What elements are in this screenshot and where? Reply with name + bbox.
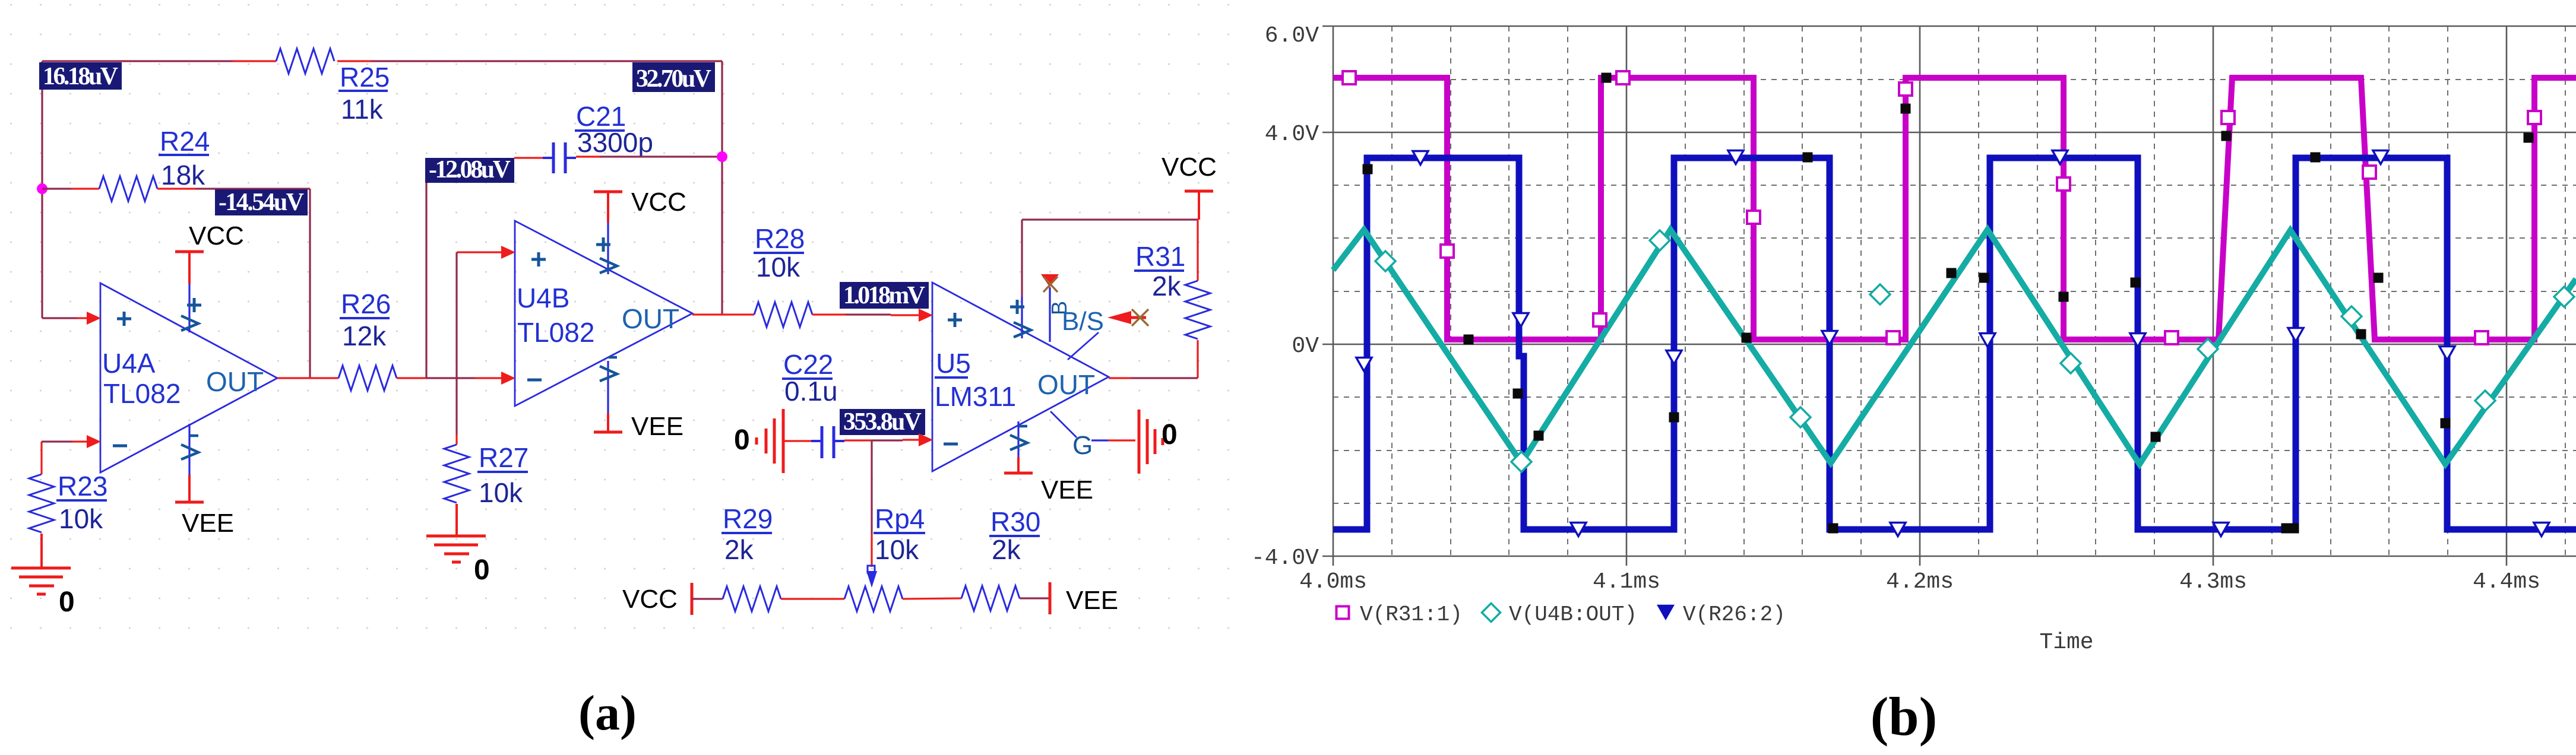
op-amp U4A + input arrow bbox=[87, 312, 101, 325]
wire from R23 top to U4A - input bbox=[40, 442, 42, 474]
trace V(R31:1) magenta square wave bbox=[1333, 78, 2576, 340]
wire U4B + input from R27 node bbox=[457, 251, 502, 253]
svg-text:R30: R30 bbox=[990, 506, 1040, 537]
wire R27 node vertical (U4B + to R27) bbox=[455, 252, 457, 434]
svg-text:11k: 11k bbox=[341, 94, 384, 125]
op-amp U4B triangle bbox=[515, 221, 692, 406]
svg-text:6.0V: 6.0V bbox=[1265, 23, 1319, 49]
voltage label 1.018mV bbox=[840, 282, 929, 309]
wire R30 to VEE bbox=[1020, 597, 1050, 599]
trace V(R26:2) blue square wave bbox=[1333, 158, 2576, 529]
svg-text:VEE: VEE bbox=[631, 412, 683, 441]
op-amp U4A + glyph bbox=[117, 318, 131, 321]
svg-text:OUT: OUT bbox=[622, 303, 679, 334]
ground 0 below R27 bbox=[426, 535, 486, 538]
svg-text:R25: R25 bbox=[340, 62, 390, 93]
voltage label 32.70uV bbox=[632, 62, 715, 92]
voltage label -12.08uV bbox=[425, 158, 514, 183]
svg-text:4.0V: 4.0V bbox=[1265, 122, 1319, 147]
wire VCC to R29 bbox=[692, 598, 723, 599]
op-amp U4B V- pin bbox=[607, 361, 609, 413]
op-amp U4B - glyph bbox=[527, 379, 542, 382]
svg-text:4.0ms: 4.0ms bbox=[1299, 569, 1367, 595]
svg-text:10k: 10k bbox=[756, 252, 800, 283]
ground 0 below R23 bbox=[11, 567, 71, 570]
power VEE at U4B bbox=[607, 413, 609, 432]
svg-text:(a): (a) bbox=[578, 686, 637, 741]
op-amp U4B + input arrow bbox=[501, 246, 515, 259]
wire U4B output to R28 bbox=[692, 313, 754, 315]
svg-text:4.1ms: 4.1ms bbox=[1593, 569, 1660, 595]
svg-text:R27: R27 bbox=[479, 442, 529, 473]
svg-text:VCC: VCC bbox=[631, 188, 686, 217]
op-amp U4A V- pin bbox=[188, 424, 190, 475]
voltage label -14.54uV bbox=[215, 189, 308, 215]
power VEE at U5 bbox=[1017, 457, 1020, 473]
svg-text:TL082: TL082 bbox=[103, 378, 181, 409]
wire C22 to U5 - input bbox=[844, 439, 872, 441]
plot solid gridlines and axes bbox=[1333, 26, 2576, 27]
resistor R26 bbox=[338, 366, 397, 391]
wire Rp4 to R30 bbox=[903, 598, 961, 599]
svg-text:R24: R24 bbox=[160, 126, 210, 157]
op-amp U4B - input arrow bbox=[501, 372, 515, 385]
resistor R24 bbox=[99, 176, 157, 201]
resistor R29 bbox=[723, 586, 781, 611]
svg-text:R23: R23 bbox=[58, 471, 107, 502]
op-amp U4A - input arrow bbox=[87, 435, 101, 448]
svg-text:TL082: TL082 bbox=[517, 317, 594, 348]
svg-text:V(R26:2): V(R26:2) bbox=[1683, 602, 1786, 627]
wire R31 bottom to U5 OUT bbox=[1197, 340, 1198, 378]
svg-text:1.018mV: 1.018mV bbox=[843, 282, 925, 309]
svg-text:3300p: 3300p bbox=[577, 127, 653, 158]
plot axis ticks bbox=[1322, 26, 1333, 27]
op-amp U4A V+ pin bbox=[188, 284, 190, 332]
ground 0 at C22 (rotated) bbox=[782, 409, 785, 473]
power VEE at U4A bbox=[188, 475, 191, 502]
svg-text:0: 0 bbox=[734, 424, 750, 456]
svg-text:-14.54uV: -14.54uV bbox=[219, 189, 304, 216]
wire U5 top net (V+ to VCC/R31) bbox=[1022, 218, 1198, 220]
op-amp U5 triangle bbox=[932, 283, 1109, 471]
capacitor C21 bbox=[552, 142, 555, 173]
svg-text:U4B: U4B bbox=[517, 283, 569, 313]
svg-text:0: 0 bbox=[474, 554, 490, 586]
wire from left node to R24 bbox=[42, 188, 71, 189]
wire left vertical from 16.18uV node down to U4A + input bbox=[41, 61, 43, 318]
op-amp U4A triangle bbox=[100, 283, 277, 472]
voltage label 353.8uV bbox=[840, 409, 925, 435]
svg-text:2k: 2k bbox=[724, 534, 754, 565]
wire R28 to U5 + input bbox=[812, 313, 846, 315]
svg-text:U4A: U4A bbox=[102, 348, 156, 379]
svg-text:OUT: OUT bbox=[206, 366, 264, 397]
op-amp U5 G pin bbox=[1050, 411, 1077, 437]
svg-text:10k: 10k bbox=[875, 534, 919, 565]
svg-text:0.1u: 0.1u bbox=[784, 376, 838, 407]
svg-text:VCC: VCC bbox=[189, 221, 244, 250]
svg-text:VEE: VEE bbox=[1066, 586, 1118, 615]
svg-text:4.2ms: 4.2ms bbox=[1886, 569, 1954, 595]
wire R29 to Rp4 bbox=[781, 598, 844, 599]
wire -12.08uV node vertical bbox=[425, 159, 427, 378]
svg-text:Rp4: Rp4 bbox=[875, 503, 925, 534]
svg-text:U5: U5 bbox=[936, 348, 971, 379]
power VEE terminal at R30 bbox=[1049, 582, 1052, 614]
op-amp U5 V- pin bbox=[1017, 421, 1019, 457]
wire Rp4 wiper vertical bbox=[871, 440, 872, 534]
wire U4A output to R26 bbox=[277, 377, 338, 379]
svg-text:(b): (b) bbox=[1871, 686, 1937, 747]
svg-text:18k: 18k bbox=[161, 160, 205, 191]
voltage label 16.18uV bbox=[39, 62, 122, 90]
svg-text:R31: R31 bbox=[1135, 241, 1185, 272]
wire R23 to ground bbox=[40, 534, 43, 568]
node junction dot at C21/32.70uV node bbox=[717, 151, 727, 162]
svg-text:4.4ms: 4.4ms bbox=[2473, 569, 2540, 595]
svg-text:V(R31:1): V(R31:1) bbox=[1360, 602, 1463, 627]
ground 0 at U5 G pin (rotated) bbox=[1138, 410, 1141, 474]
svg-text:V(U4B:OUT): V(U4B:OUT) bbox=[1509, 602, 1637, 627]
svg-text:VCC: VCC bbox=[622, 585, 678, 614]
op-amp U5 + input arrow bbox=[919, 309, 933, 322]
svg-text:-4.0V: -4.0V bbox=[1251, 545, 1319, 571]
op-amp U5 - input arrow bbox=[919, 433, 933, 446]
markers blue triangles on V(R26:2) bbox=[1413, 151, 1428, 165]
wire right vertical from 32.70uV corner down to U4B output node bbox=[721, 61, 723, 315]
svg-text:OUT: OUT bbox=[1037, 369, 1095, 400]
svg-text:R29: R29 bbox=[723, 503, 773, 534]
node junction dot at R24/R25 left node bbox=[37, 183, 48, 194]
svg-text:2k: 2k bbox=[992, 534, 1021, 565]
op-amp U5 B pin bbox=[1049, 287, 1050, 342]
svg-text:0V: 0V bbox=[1292, 334, 1319, 359]
resistor R30 bbox=[961, 586, 1020, 611]
trace V(U4B:OUT) teal triangle wave bbox=[1333, 230, 2576, 464]
power VCC at U4B bbox=[607, 192, 609, 223]
resistor R25 bbox=[276, 49, 334, 74]
op-amp U4A - glyph bbox=[113, 445, 127, 448]
svg-text:10k: 10k bbox=[59, 503, 103, 534]
markers teal diamonds on V(U4B:OUT) bbox=[1375, 251, 1395, 271]
capacitor C22 bbox=[821, 426, 824, 458]
resistor R23 bbox=[29, 474, 54, 532]
wire ground to C22 bbox=[783, 440, 811, 442]
markers magenta squares on V(R31:1) bbox=[1343, 71, 1356, 84]
op-amp U4B + glyph bbox=[531, 258, 546, 261]
resistor R27 bbox=[444, 445, 469, 503]
wire R26 to U4B - input bbox=[397, 377, 426, 379]
op-amp U5 + glyph bbox=[948, 319, 962, 322]
no-connect pin arrow and X at U5 pin 6 bbox=[1107, 311, 1131, 324]
svg-text:353.8uV: 353.8uV bbox=[843, 408, 922, 436]
resistor R31 bbox=[1185, 281, 1210, 339]
svg-text:0: 0 bbox=[1162, 419, 1178, 451]
markers black squares (data points) bbox=[1363, 164, 1373, 175]
svg-text:4.3ms: 4.3ms bbox=[2179, 569, 2247, 595]
potentiometer Rp4 wiper arrow bbox=[866, 571, 877, 588]
svg-text:12k: 12k bbox=[342, 321, 387, 351]
svg-text:VEE: VEE bbox=[182, 509, 234, 538]
svg-text:R26: R26 bbox=[341, 288, 391, 319]
wire top feedback net (node 16.18uV to R25 to 32.70uV corner) bbox=[42, 60, 233, 62]
op-amp U4B V+ pin bbox=[607, 223, 609, 274]
svg-text:R28: R28 bbox=[755, 223, 805, 254]
wire -12.08uV node to C21 bbox=[514, 157, 543, 158]
plot dashed gridlines bbox=[1333, 79, 2576, 80]
svg-text:VEE: VEE bbox=[1041, 475, 1093, 505]
wire C21 to U4B output node bbox=[576, 156, 600, 157]
svg-text:G: G bbox=[1072, 431, 1093, 460]
svg-text:0: 0 bbox=[59, 586, 75, 618]
svg-text:B/S: B/S bbox=[1062, 307, 1104, 336]
wire U5 B/S diagonal bbox=[1068, 332, 1099, 360]
potentiometer Rp4 bbox=[844, 586, 903, 611]
svg-text:16.18uV: 16.18uV bbox=[43, 63, 118, 90]
power VCC at U4A bbox=[188, 252, 191, 284]
op-amp U5 - glyph bbox=[944, 443, 958, 446]
plot legend bbox=[1337, 607, 1349, 619]
resistor R28 bbox=[754, 302, 812, 327]
op-amp U5 V+ pin bbox=[1021, 297, 1023, 338]
svg-text:10k: 10k bbox=[479, 477, 523, 508]
svg-text:LM311: LM311 bbox=[935, 381, 1016, 412]
svg-text:32.70uV: 32.70uV bbox=[636, 65, 711, 93]
wire R27 to ground bbox=[455, 504, 458, 536]
svg-text:VCC: VCC bbox=[1162, 153, 1217, 182]
wire from R24 to -14.54uV node and down to U4A output bbox=[157, 188, 196, 189]
svg-text:-12.08uV: -12.08uV bbox=[429, 156, 511, 183]
svg-text:Time: Time bbox=[2039, 630, 2093, 655]
svg-text:2k: 2k bbox=[1152, 271, 1182, 302]
